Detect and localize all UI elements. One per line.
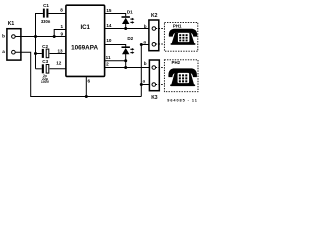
wire branch down to C2/C3 — [35, 37, 37, 69]
svg-text:330n: 330n — [41, 19, 51, 24]
K3 pin a — [143, 78, 156, 86]
svg-text:10: 10 — [106, 38, 112, 43]
svg-text:15: 15 — [106, 8, 112, 13]
svg-text:6: 6 — [88, 79, 91, 84]
wire C3 to IC pin 12 — [50, 68, 67, 70]
LED D1 — [122, 10, 135, 29]
wire dashed K2-a to PH1 — [156, 43, 165, 45]
IC1 1069APA box — [66, 5, 105, 76]
svg-text:964085 - 11: 964085 - 11 — [167, 98, 198, 102]
svg-text:D2: D2 — [127, 36, 133, 41]
svg-text:1069APA: 1069APA — [71, 45, 98, 52]
svg-text:C1: C1 — [43, 3, 49, 8]
svg-text:K1: K1 — [8, 21, 15, 27]
node K2-a / riser — [140, 43, 143, 46]
svg-text:1: 1 — [61, 24, 64, 29]
svg-text:PH1: PH1 — [173, 23, 182, 28]
wire K3-a — [141, 84, 152, 86]
svg-text:a: a — [143, 78, 146, 83]
svg-text:a: a — [2, 49, 5, 54]
svg-text:C3: C3 — [42, 59, 48, 64]
svg-text:IC1: IC1 — [80, 24, 90, 31]
wire C1 to IC pin 8 — [48, 13, 66, 15]
svg-text:8: 8 — [60, 8, 63, 13]
wire K1-a down to ground bus — [15, 52, 141, 96]
svg-text:11: 11 — [106, 55, 111, 60]
wire IC pin 14 to K2-b — [105, 28, 153, 30]
svg-text:D1: D1 — [127, 10, 133, 15]
wire K2-a — [141, 44, 152, 46]
K1 pin a — [2, 49, 15, 54]
svg-text:2: 2 — [106, 62, 109, 67]
svg-text:9: 9 — [61, 31, 64, 36]
node bus / IC pin 6 — [85, 95, 88, 98]
wire IC pin 10 to D2 — [105, 45, 126, 47]
node junction C2 — [34, 52, 37, 55]
wire IC bottom pin 6 to bus — [85, 76, 87, 96]
svg-text:K2: K2 — [151, 13, 158, 19]
wire stub to IC pin 1 — [54, 30, 66, 37]
telephone PH2 dashed box — [164, 60, 198, 92]
svg-text:13: 13 — [57, 48, 63, 53]
telephone icon PH1 — [169, 29, 197, 45]
K2 pin b — [144, 24, 156, 30]
node D1 / pin 14 wire — [124, 27, 127, 30]
capacitor C3 — [42, 59, 49, 73]
svg-text:b: b — [144, 24, 147, 29]
capacitor C1 — [41, 3, 51, 24]
connector K2 — [149, 13, 159, 51]
capacitor C2 — [42, 44, 49, 58]
svg-text:b: b — [144, 61, 147, 66]
node D2 / pin 11 wire — [124, 59, 127, 62]
K3 pin b — [144, 61, 156, 69]
node K3-a / riser — [140, 83, 143, 86]
wire IC pin 11 to D2 — [105, 60, 126, 62]
wire C2 to IC pin 13 — [50, 53, 67, 55]
wire a-line riser K2-a to bus — [140, 45, 142, 97]
svg-text:100V: 100V — [41, 80, 50, 84]
wire to C3 — [36, 68, 42, 70]
node junction b-wire / C1 branch — [34, 35, 37, 38]
svg-text:PH2: PH2 — [172, 60, 181, 65]
wire dashed K3-b to PH2 — [156, 67, 165, 69]
wire dashed K2-b to PH1 — [156, 28, 165, 30]
node D2 / pin 2 wire — [124, 66, 127, 69]
wire K1-b to IC pin 9 — [15, 36, 66, 38]
LED D2 — [122, 36, 135, 67]
svg-text:C2: C2 — [42, 44, 48, 49]
telephone PH1 dashed box — [164, 22, 197, 51]
K2 pin a — [143, 40, 155, 46]
svg-text:b: b — [2, 33, 5, 38]
wire dashed K3-a to PH2 — [156, 84, 165, 86]
value label 2x 22u 100V — [41, 74, 50, 84]
svg-text:14: 14 — [106, 23, 112, 28]
connector K3 — [149, 60, 159, 101]
wire IC pin 15 to D1 — [105, 14, 126, 17]
svg-text:a: a — [143, 40, 146, 45]
node junction b-wire / pin 1 stub — [53, 35, 56, 38]
K1 pin b — [2, 33, 15, 38]
wire to C2 — [36, 53, 42, 55]
svg-text:12: 12 — [56, 61, 62, 66]
connector K1 — [7, 21, 21, 60]
telephone icon PH2 — [168, 68, 197, 86]
wire branch up to C1 — [36, 14, 43, 37]
svg-text:K3: K3 — [151, 95, 158, 101]
wire IC pin 2 to K3-b — [105, 67, 152, 69]
